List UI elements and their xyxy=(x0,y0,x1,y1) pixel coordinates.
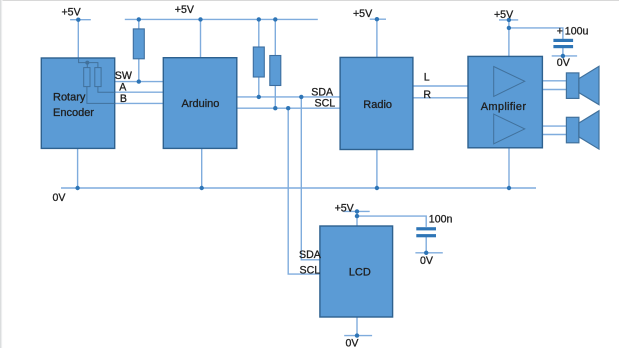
svg-text:0V: 0V xyxy=(557,57,571,69)
svg-text:100n: 100n xyxy=(429,214,453,226)
svg-text:L: L xyxy=(424,72,430,84)
svg-text:LCD: LCD xyxy=(349,267,371,279)
svg-text:Radio: Radio xyxy=(363,99,392,111)
svg-text:SW: SW xyxy=(115,70,132,82)
svg-text:0V: 0V xyxy=(53,192,67,204)
svg-text:+5V: +5V xyxy=(494,9,514,21)
svg-text:+5V: +5V xyxy=(353,8,373,20)
svg-text:A: A xyxy=(119,82,127,94)
svg-text:+5V: +5V xyxy=(175,4,195,16)
svg-text:Rotary: Rotary xyxy=(53,92,86,104)
svg-text:+: + xyxy=(557,26,563,38)
svg-text:0V: 0V xyxy=(420,255,434,267)
svg-text:+5V: +5V xyxy=(62,7,82,19)
svg-text:R: R xyxy=(423,89,431,101)
svg-text:Arduino: Arduino xyxy=(182,98,220,110)
svg-text:B: B xyxy=(120,93,127,105)
svg-text:SCL: SCL xyxy=(315,98,336,110)
svg-text:+5V: +5V xyxy=(335,203,355,215)
svg-text:0V: 0V xyxy=(346,338,360,348)
svg-text:Encoder: Encoder xyxy=(53,107,94,119)
svg-text:SDA: SDA xyxy=(299,249,322,261)
svg-text:Amplifier: Amplifier xyxy=(481,101,527,113)
svg-text:100u: 100u xyxy=(565,26,589,38)
svg-text:SCL: SCL xyxy=(300,264,321,276)
